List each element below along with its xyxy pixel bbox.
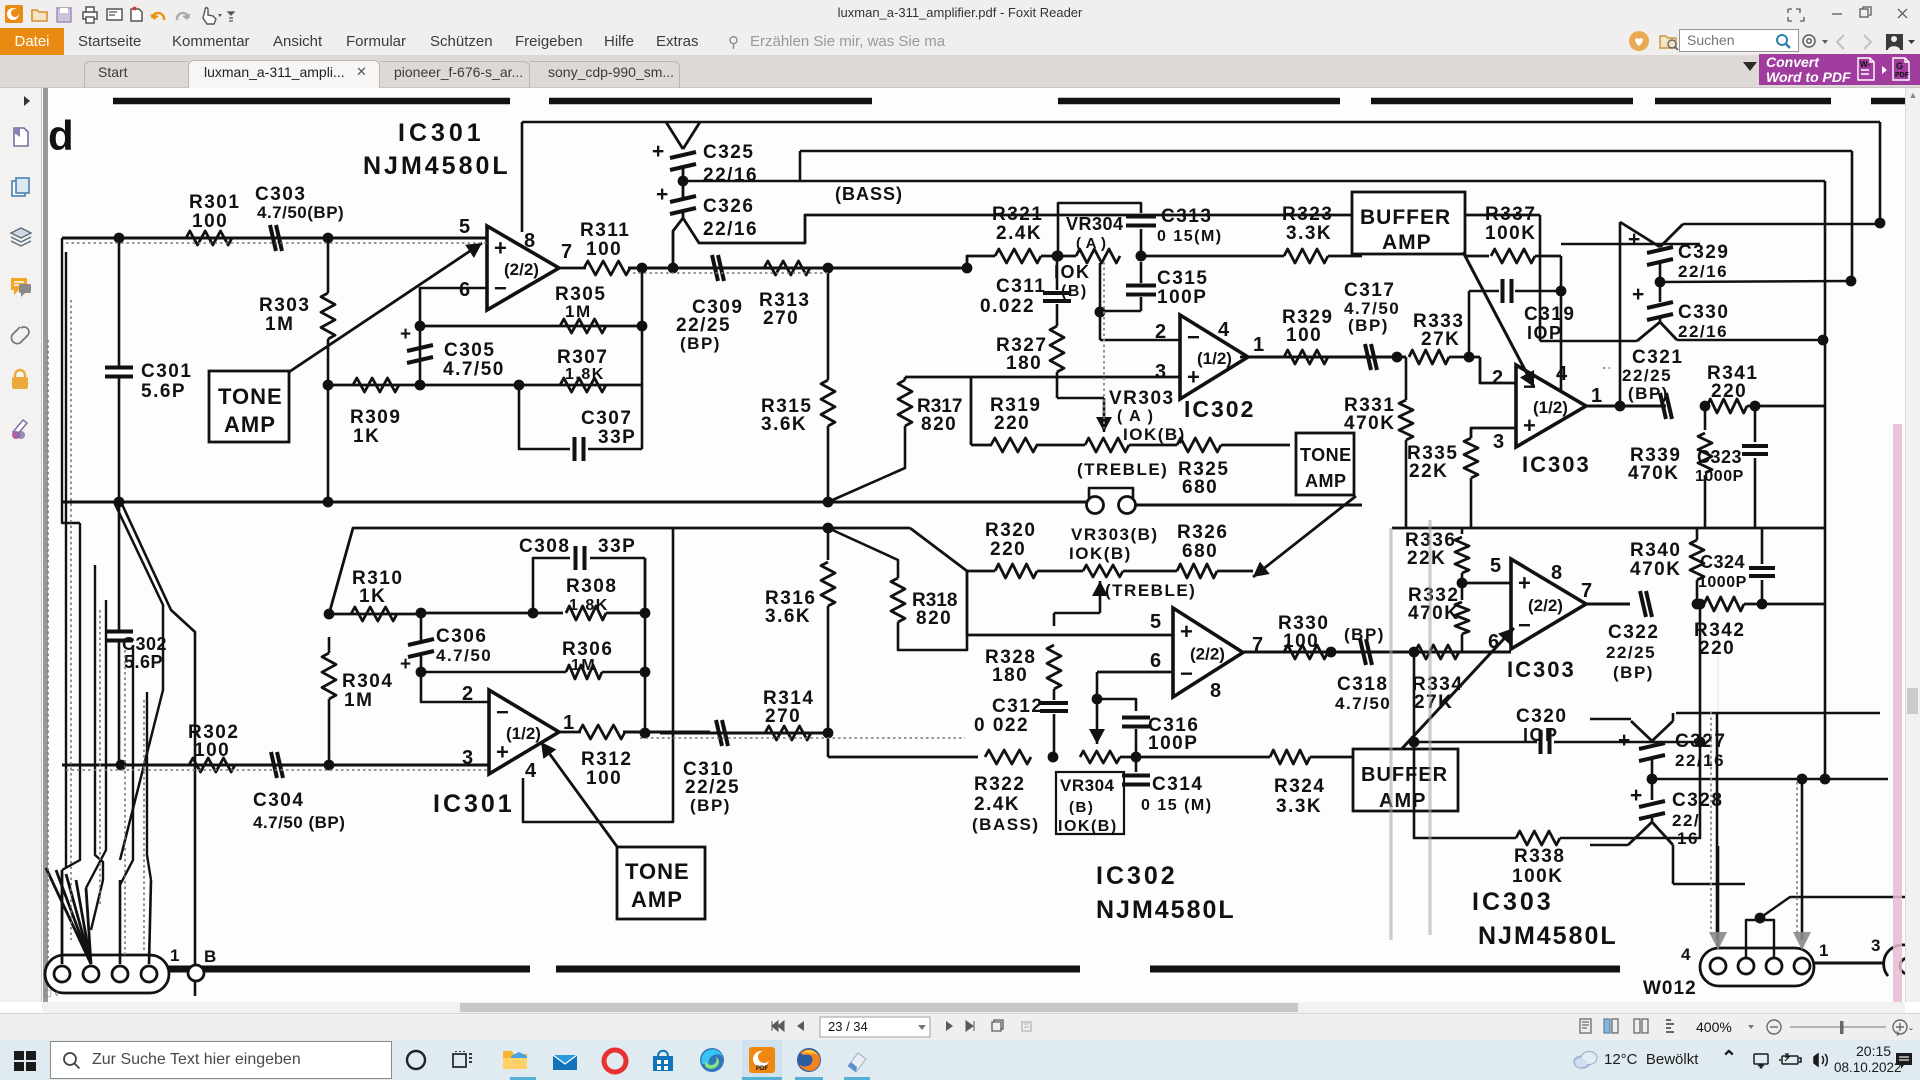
svg-text:(1/2): (1/2) <box>1533 398 1568 417</box>
svg-text:C323: C323 <box>1697 447 1742 467</box>
svg-text:R303: R303 <box>259 295 310 316</box>
svg-text:R340: R340 <box>1630 540 1681 561</box>
wire switch right <box>1134 504 1362 507</box>
resistor R327 <box>1056 304 1059 326</box>
node R319 corner <box>970 377 973 445</box>
resistor R342 <box>1704 597 1744 611</box>
wire C326 to bass rail <box>683 215 1540 243</box>
svg-text:180: 180 <box>992 665 1028 686</box>
wire y151 corner down <box>1851 151 1854 281</box>
svg-text:6: 6 <box>459 279 470 301</box>
svg-text:( A ): ( A ) <box>1117 408 1154 425</box>
svg-text:(2/2): (2/2) <box>1528 596 1563 615</box>
svg-text:VR304: VR304 <box>1060 776 1115 795</box>
node R339 top <box>1700 401 1711 412</box>
wire C326 to bus <box>673 218 683 268</box>
wire y215 corner down <box>1539 215 1542 341</box>
wire R305 to output <box>641 268 644 326</box>
capacitor C305 <box>419 326 422 385</box>
svg-text:C314: C314 <box>1152 774 1203 795</box>
svg-text:R301: R301 <box>189 192 240 213</box>
svg-text:IOK(B): IOK(B) <box>1069 544 1132 563</box>
svg-text:3.6K: 3.6K <box>761 414 807 435</box>
svg-text:2: 2 <box>1492 367 1503 389</box>
svg-text:−: − <box>1518 613 1531 638</box>
svg-text:G: G <box>1896 61 1903 71</box>
scan artifact streaks <box>1391 520 1430 940</box>
top border line <box>113 98 510 105</box>
capacitor C318 <box>1360 639 1366 665</box>
svg-text:(BASS): (BASS) <box>972 815 1040 834</box>
svg-text:(BP): (BP) <box>680 334 721 353</box>
wire top rail y122 <box>522 121 1880 124</box>
connector W012 <box>1700 948 1814 986</box>
svg-text:R338: R338 <box>1514 846 1565 867</box>
svg-text:IC303: IC303 <box>1522 452 1591 477</box>
svg-text:22/25: 22/25 <box>1622 366 1672 385</box>
svg-text:+: + <box>1632 283 1644 306</box>
svg-text:TONE: TONE <box>1300 445 1352 465</box>
wire pin8 to top rail <box>521 122 524 232</box>
resistor R316 <box>827 528 830 560</box>
svg-text:1: 1 <box>170 946 179 965</box>
svg-text:5.6P: 5.6P <box>141 381 186 402</box>
bottom rails <box>88 966 530 973</box>
resistor R306 <box>421 671 566 674</box>
left diagonals <box>114 502 163 860</box>
svg-text:22/16: 22/16 <box>1678 262 1728 281</box>
left sidebar <box>0 88 42 1002</box>
capacitor C304 <box>271 752 277 778</box>
window title bar <box>0 0 1920 28</box>
svg-text:8: 8 <box>1210 680 1221 702</box>
svg-text:+: + <box>1187 364 1200 389</box>
wiper VR303B chain <box>1054 612 1100 615</box>
resistor R322 <box>985 750 1031 764</box>
svg-text:C322: C322 <box>1608 622 1659 643</box>
wire treble bus upper <box>62 501 1086 504</box>
svg-text:TONE: TONE <box>218 384 283 409</box>
svg-text:4.7/50(BP): 4.7/50(BP) <box>257 203 344 222</box>
svg-text:220: 220 <box>994 413 1030 434</box>
svg-text:2.4K: 2.4K <box>974 794 1020 815</box>
capacitor C303 <box>270 225 276 251</box>
resistor R301 <box>186 231 232 245</box>
svg-text:22/25: 22/25 <box>676 315 731 336</box>
wire into IC303 upper <box>1362 356 1406 359</box>
resistor R319 <box>971 444 992 447</box>
wire pin5 ic303l <box>1462 582 1511 585</box>
node R322 right <box>1048 752 1059 763</box>
svg-text:2.4K: 2.4K <box>996 223 1042 244</box>
svg-text:680: 680 <box>1182 477 1218 498</box>
status bar <box>0 1013 1920 1040</box>
wire upper signal bus <box>628 267 967 270</box>
capacitor C329 <box>1619 222 1622 406</box>
wire rail y181 <box>683 180 1825 183</box>
arrow VR303B wiper <box>1099 581 1102 613</box>
svg-text:R326: R326 <box>1177 522 1228 543</box>
node upper input <box>114 233 125 244</box>
svg-text:C327: C327 <box>1675 731 1726 752</box>
svg-text:AMP: AMP <box>1305 471 1347 491</box>
svg-text:4: 4 <box>1556 363 1568 385</box>
wire C330 bottom right <box>1660 322 1677 340</box>
svg-text:C326: C326 <box>703 196 754 217</box>
svg-text:4.7/50: 4.7/50 <box>436 646 492 665</box>
node C324 bottom <box>1757 599 1768 610</box>
windows taskbar <box>0 1040 1920 1080</box>
resistor R314 <box>765 726 811 740</box>
TONE AMP box upper <box>209 371 289 442</box>
svg-text:22K: 22K <box>1409 461 1448 482</box>
svg-text:PDF: PDF <box>1895 72 1910 79</box>
w012 bracket <box>1746 920 1774 958</box>
svg-text:C311: C311 <box>996 276 1046 297</box>
resistor R324 <box>1270 750 1310 764</box>
wire pin2 entry <box>1480 357 1516 383</box>
svg-text:NJM4580L: NJM4580L <box>363 152 511 180</box>
wire R308 bus <box>418 612 563 615</box>
capacitor C312 <box>1040 701 1068 705</box>
svg-text:0 15 (M): 0 15 (M) <box>1141 797 1213 814</box>
wire bass bus lower <box>827 733 830 757</box>
capacitor C310 <box>716 720 722 746</box>
svg-text:C313: C313 <box>1161 206 1212 227</box>
capacitor C320 <box>1414 652 1537 742</box>
svg-text:R311: R311 <box>580 220 630 241</box>
wire feedback loop lower <box>523 528 673 822</box>
node C323 top <box>1750 401 1761 412</box>
potentiometer VR304 (A) <box>1076 249 1120 263</box>
svg-text:1000P: 1000P <box>1698 574 1747 591</box>
wire upper input bus <box>62 237 487 240</box>
svg-text:5: 5 <box>1490 555 1501 577</box>
resistor R328 <box>1053 613 1056 626</box>
wire VR304 right <box>1141 255 1284 258</box>
svg-text:0 15(M): 0 15(M) <box>1157 228 1223 245</box>
svg-text:8: 8 <box>1551 562 1562 584</box>
resistor R310 <box>351 607 397 621</box>
svg-text:0 022: 0 022 <box>974 715 1029 736</box>
svg-text:R309: R309 <box>350 407 401 428</box>
svg-text:7: 7 <box>561 241 572 263</box>
svg-text:IC302: IC302 <box>1184 396 1255 422</box>
left dotted shadows <box>48 243 965 958</box>
svg-text:1K: 1K <box>353 426 380 447</box>
node y340 <box>1818 335 1829 346</box>
svg-text:3: 3 <box>1871 936 1880 955</box>
resistor R326 <box>1123 570 1177 573</box>
svg-text:3.3K: 3.3K <box>1276 796 1322 817</box>
svg-text:C312: C312 <box>992 696 1043 717</box>
svg-text:+: + <box>652 140 664 163</box>
svg-text:NJM4580L: NJM4580L <box>1096 896 1236 924</box>
svg-text:PDF: PDF <box>756 1066 768 1072</box>
resistor R315 <box>827 268 830 380</box>
svg-text:3: 3 <box>1493 431 1504 453</box>
svg-text:+: + <box>1630 784 1642 807</box>
switch circles <box>1087 497 1104 514</box>
capacitor C301 <box>118 238 121 366</box>
svg-text:4.7/50: 4.7/50 <box>443 359 505 380</box>
capacitor C316 <box>1097 699 1136 711</box>
svg-text:TONE: TONE <box>625 859 690 884</box>
svg-text:W012: W012 <box>1643 978 1697 999</box>
node R321 right <box>1053 251 1064 262</box>
R310 bus <box>329 613 418 616</box>
wire right border vertical <box>1879 122 1882 223</box>
wire bass bus right <box>1120 756 1270 759</box>
svg-text:IC302: IC302 <box>1096 862 1178 890</box>
svg-text:1.8K: 1.8K <box>569 597 609 614</box>
resistor R320 <box>995 564 1037 578</box>
wire vert x1825 down <box>1824 340 1827 779</box>
wiper VR303A chain <box>1056 372 1059 398</box>
svg-text:470K: 470K <box>1628 463 1679 484</box>
wire pin3 bus <box>905 376 1180 379</box>
wire feedback bus lower <box>328 384 642 387</box>
capacitor C319 <box>1501 279 1505 303</box>
node C313 bottom <box>1136 251 1147 262</box>
capacitor C302 <box>105 630 133 634</box>
svg-text:C301: C301 <box>141 361 192 382</box>
svg-text:23 / 34: 23 / 34 <box>828 1019 868 1034</box>
capacitor C307 <box>519 385 570 449</box>
capacitor C317 <box>1365 344 1371 370</box>
capacitor C324 <box>1761 580 1764 604</box>
svg-text:(2/2): (2/2) <box>504 260 539 279</box>
capacitor C322 <box>1640 591 1646 617</box>
svg-text:470K: 470K <box>1344 413 1395 434</box>
potentiometer VR303 (B) <box>1037 570 1083 573</box>
svg-text:+: + <box>400 654 411 675</box>
resistor R307 <box>560 378 606 392</box>
svg-text:180: 180 <box>1006 353 1042 374</box>
svg-text:AMP: AMP <box>1382 231 1432 254</box>
wire C328 bottom <box>1651 816 1654 822</box>
resistor R311 <box>559 267 586 270</box>
wire R337 down to pin4 <box>1560 256 1563 390</box>
svg-text:4.7/50 (BP): 4.7/50 (BP) <box>253 813 345 832</box>
svg-text:IOK(B): IOK(B) <box>1123 425 1186 444</box>
svg-text:d: d <box>48 112 74 159</box>
svg-text:470K: 470K <box>1630 559 1681 580</box>
svg-text:1M: 1M <box>265 314 294 335</box>
svg-text:22K: 22K <box>1407 548 1446 569</box>
svg-text:R312: R312 <box>581 749 632 770</box>
svg-text:1: 1 <box>1591 385 1602 407</box>
svg-text:22/16: 22/16 <box>703 165 758 186</box>
svg-text:1K: 1K <box>359 586 386 607</box>
svg-text:3: 3 <box>462 747 473 769</box>
wire IC302 out <box>1248 356 1362 359</box>
svg-text:220: 220 <box>1699 638 1735 659</box>
wire right loop vertical <box>644 558 647 733</box>
svg-text:NJM4580L: NJM4580L <box>1478 922 1618 950</box>
capacitor C323 <box>1754 406 1757 442</box>
svg-text:3: 3 <box>1155 361 1166 383</box>
op-amp IC301 (2/2) <box>487 226 559 310</box>
svg-text:680: 680 <box>1182 541 1218 562</box>
node C316 bottom <box>1131 752 1142 763</box>
svg-text:6: 6 <box>1150 650 1161 672</box>
svg-text:3.6K: 3.6K <box>765 606 811 627</box>
svg-text:IOK: IOK <box>1054 262 1091 282</box>
node y779 right <box>1820 774 1831 785</box>
node R334 left <box>1409 647 1420 658</box>
wire C319 loop <box>1468 291 1471 357</box>
svg-text:+: + <box>496 739 509 764</box>
svg-text:C304: C304 <box>253 790 304 811</box>
left stair steps <box>62 238 80 523</box>
node C306 <box>416 608 427 619</box>
node C327 bottom <box>1647 774 1658 785</box>
arrow tone right <box>1253 496 1356 577</box>
capacitor C327 <box>1631 721 1652 741</box>
svg-text:+: + <box>1628 228 1640 251</box>
potentiometer VR303 (A) symbol <box>1085 438 1129 452</box>
resistor R312 <box>559 731 581 734</box>
svg-text:100: 100 <box>586 768 622 789</box>
node C319 right <box>1556 286 1567 297</box>
svg-text:22/25: 22/25 <box>1606 643 1656 662</box>
svg-text:VR303: VR303 <box>1109 388 1175 409</box>
wire w012 to right <box>1814 962 1884 965</box>
svg-text:C329: C329 <box>1678 242 1729 263</box>
svg-text:3.3K: 3.3K <box>1286 223 1332 244</box>
resistor R302 <box>189 758 235 772</box>
svg-text:IOK(B): IOK(B) <box>1058 818 1118 835</box>
wire C329 junction right <box>1660 281 1851 282</box>
svg-text:C318: C318 <box>1337 674 1388 695</box>
svg-text:22/16: 22/16 <box>1678 322 1728 341</box>
capacitor C326 <box>670 196 696 202</box>
svg-text:1M: 1M <box>565 302 592 321</box>
svg-text:IC301: IC301 <box>433 790 515 818</box>
svg-text:100P: 100P <box>1157 287 1207 308</box>
resistor R303 <box>321 293 335 339</box>
wire w012 pin1 col <box>1801 846 1804 940</box>
svg-text:R307: R307 <box>557 347 608 368</box>
wire y779 <box>1652 778 1888 781</box>
svg-text:5.6P: 5.6P <box>124 652 163 672</box>
svg-text:(TREBLE): (TREBLE) <box>1105 581 1196 600</box>
svg-text:C330: C330 <box>1678 302 1729 323</box>
node C317 out <box>1392 352 1403 363</box>
svg-text:100K: 100K <box>1485 223 1536 244</box>
TONE AMP box right <box>1296 433 1354 495</box>
svg-text:C321: C321 <box>1632 347 1683 368</box>
wire IC303 out <box>1586 405 1666 408</box>
svg-text:C315: C315 <box>1157 268 1208 289</box>
wire bus step up <box>967 256 995 268</box>
svg-text:100: 100 <box>192 211 228 232</box>
svg-text:270: 270 <box>763 308 799 329</box>
svg-text:27K: 27K <box>1421 329 1460 350</box>
svg-text:−: − <box>1187 325 1200 350</box>
gray wiper arrows <box>1709 932 1811 950</box>
BUFFER AMP box upper <box>1352 192 1465 254</box>
svg-text:C317: C317 <box>1344 280 1395 301</box>
svg-text:820: 820 <box>921 414 957 435</box>
svg-text:22/25: 22/25 <box>685 777 740 798</box>
node y281 <box>1846 276 1857 287</box>
horizontal scrollbar <box>42 1002 1905 1013</box>
wire lower input bus <box>62 764 489 767</box>
svg-text:220: 220 <box>1711 381 1747 402</box>
wire rail y224 <box>1683 223 1880 226</box>
wires into connector <box>46 868 91 964</box>
op-amp IC302 (1/2) <box>1180 315 1248 399</box>
svg-text:IC301: IC301 <box>398 119 485 147</box>
capacitor C306 <box>408 639 434 645</box>
open node B <box>188 965 204 981</box>
arrow VR303A wiper <box>1103 398 1106 432</box>
capacitor C311 <box>1056 256 1059 290</box>
svg-text:R308: R308 <box>566 576 617 597</box>
svg-text:100: 100 <box>194 740 230 761</box>
node out ic303 <box>1615 401 1626 412</box>
svg-text:R323: R323 <box>1282 204 1333 225</box>
svg-text:1M: 1M <box>571 657 596 674</box>
wire vert w012 pin4 <box>1717 846 1720 950</box>
svg-text:R304: R304 <box>342 671 393 692</box>
op-amp IC303 (2/2) lower <box>1511 559 1586 649</box>
op-amp IC303 (1/2) <box>1516 365 1586 447</box>
capacitor C325 <box>666 122 683 149</box>
svg-text:R320: R320 <box>985 520 1036 541</box>
connector partial right <box>1884 945 1920 976</box>
svg-text:+: + <box>1518 570 1531 595</box>
svg-text:(1/2): (1/2) <box>506 724 541 743</box>
arrow buffer lower <box>1396 628 1514 755</box>
potentiometer VR304 (B) <box>1080 751 1120 763</box>
wire pin5 feed <box>967 571 1173 635</box>
wire right mid bus y528 <box>1392 527 1825 530</box>
svg-text:220: 220 <box>990 539 1026 560</box>
svg-text:33P: 33P <box>598 427 636 448</box>
svg-text:−: − <box>496 700 509 725</box>
resistor R325 <box>1177 438 1221 452</box>
BUFFER AMP box lower <box>1353 749 1458 811</box>
wire to pin2 <box>1100 339 1180 342</box>
svg-text:100K: 100K <box>1512 866 1563 887</box>
svg-text:0.022: 0.022 <box>980 296 1035 317</box>
resistor R305 <box>560 319 606 333</box>
wire feedback bus upper <box>420 325 642 328</box>
node C315 bottom <box>1100 310 1141 313</box>
wire y181 corner down <box>1824 181 1827 340</box>
svg-text:100: 100 <box>1286 325 1322 346</box>
switch contacts upper <box>1129 444 1177 447</box>
resistor R304 <box>322 653 336 699</box>
svg-text:7: 7 <box>1581 580 1592 602</box>
node C329 bottom <box>1659 262 1662 282</box>
resistor R313 <box>764 261 810 275</box>
capacitor C314 <box>1135 757 1138 772</box>
op-amp IC301 (1/2) lower <box>489 690 559 774</box>
capacitor C313 <box>1058 203 1141 256</box>
svg-text:1M: 1M <box>344 690 373 711</box>
svg-text:VR304: VR304 <box>1066 214 1124 234</box>
svg-text:4: 4 <box>525 760 537 782</box>
node y224 <box>1875 218 1886 229</box>
node R313 out <box>823 263 834 274</box>
svg-text:4.7/50: 4.7/50 <box>1335 694 1391 713</box>
wire R318 to pin5 feed <box>898 622 967 650</box>
svg-text:+: + <box>1618 729 1630 752</box>
